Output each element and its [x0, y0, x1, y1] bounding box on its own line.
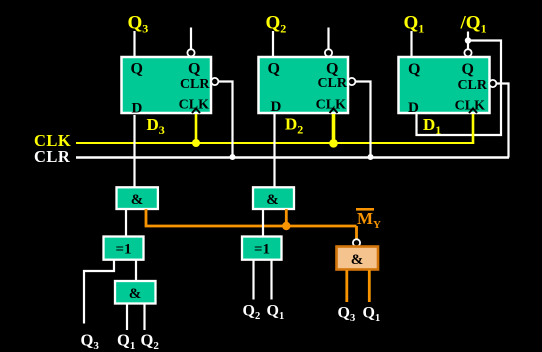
- U2 pin label CLR: [317, 76, 347, 91]
- label /Q1: [460, 13, 487, 36]
- net label CLK: [34, 131, 71, 150]
- U1 pin label CLR: [457, 78, 487, 93]
- svg-text:CLR: CLR: [34, 147, 71, 166]
- svg-text:Q: Q: [462, 61, 474, 78]
- U3 D input wire: [133, 115, 135, 187]
- label D3: [147, 115, 165, 137]
- U3 clock edge triangle: [192, 109, 200, 114]
- A1 input bubble: [353, 239, 360, 246]
- svg-text:CLR: CLR: [457, 78, 487, 93]
- U2 pin label Q (inverted output): [326, 61, 338, 78]
- X3 input wire to Q3: [84, 260, 114, 324]
- NAND gate A1 body (orange): [337, 247, 379, 270]
- svg-text:=1: =1: [115, 242, 131, 258]
- label Q2 (middle bottom): [243, 303, 261, 323]
- U2 pin label CLK: [316, 98, 346, 113]
- AND gate A3 body: [117, 187, 158, 209]
- U3 pin label CLR: [180, 77, 210, 92]
- U1 inverted output bubble: [464, 49, 471, 56]
- svg-text:Q: Q: [408, 61, 420, 78]
- AND gate A4 body: [115, 281, 156, 304]
- U2 pin label D: [271, 99, 282, 115]
- svg-text:&: &: [351, 252, 364, 268]
- U2 D input wire: [273, 114, 275, 187]
- U3 CLR wire: [218, 82, 232, 158]
- junction dot orange bus: [282, 222, 290, 230]
- X2 input wire Q1: [270, 260, 272, 300]
- A1 input wire Q1: [368, 270, 371, 302]
- label Q1 (middle bottom): [267, 303, 285, 323]
- U2 inverted output bubble: [325, 49, 332, 56]
- U2 CLK wire: [332, 114, 336, 143]
- flip-flop U3 body: [122, 57, 212, 113]
- U1 pin label Q (inverted output): [462, 61, 474, 78]
- svg-text:CLR: CLR: [317, 76, 347, 91]
- label Q3: [128, 13, 149, 36]
- junction dot U2 CLR to CLR bus: [368, 154, 374, 160]
- flip-flop U1 body: [399, 57, 490, 113]
- svg-text:CLR: CLR: [180, 77, 210, 92]
- U3 CLK wire: [195, 114, 198, 143]
- A2 output wire orange branch: [285, 209, 288, 226]
- svg-text:=1: =1: [254, 242, 270, 258]
- U3 Q output wire: [133, 31, 135, 57]
- A4 input wire Q2: [143, 304, 145, 330]
- junction dot U3 CLR to CLR bus: [230, 154, 236, 160]
- label MY (inverted): [356, 208, 381, 231]
- label Q3 (bottom left): [81, 331, 100, 352]
- U3 inverted output wire: [190, 28, 192, 50]
- U1 CLR wire: [496, 84, 508, 158]
- U1 pin label CLK: [455, 99, 485, 114]
- label Q1 (under A1): [363, 305, 381, 325]
- U3 CLR bubble: [211, 78, 218, 85]
- XNOR gate X3 body: [104, 237, 144, 260]
- label Q2: [266, 13, 287, 36]
- U3 pin label Q (inverted output): [188, 61, 200, 78]
- U2 CLR bubble: [348, 78, 355, 85]
- label Q1 (bottom): [117, 331, 135, 352]
- AND gate A2 body: [253, 187, 294, 209]
- svg-text:&: &: [129, 286, 142, 302]
- U2 clock edge triangle: [330, 109, 338, 114]
- A3 output wire to X3: [125, 209, 127, 237]
- U2 inverted output wire: [327, 28, 329, 50]
- A3 output wire orange branch: [146, 209, 357, 226]
- label Q1: [404, 13, 425, 36]
- svg-text:Q: Q: [188, 61, 200, 78]
- svg-text:&: &: [131, 192, 144, 208]
- U1 clock edge triangle: [469, 109, 477, 114]
- label Q2 (bottom): [141, 331, 160, 352]
- U3 pin label Q: [131, 61, 143, 78]
- A2 output wire to X2: [262, 209, 264, 237]
- U1 CLR bubble: [489, 80, 496, 87]
- wire CLR bus: [76, 156, 509, 159]
- svg-text:D: D: [271, 99, 282, 115]
- U3 pin label CLK: [179, 98, 209, 113]
- U1 inverted output wire: [467, 32, 469, 50]
- svg-text:D: D: [132, 101, 143, 117]
- svg-text:&: &: [266, 192, 279, 208]
- U1 Q output wire: [410, 31, 412, 57]
- U2 pin label Q: [268, 61, 280, 78]
- A4 input wire Q1: [126, 304, 128, 330]
- net label CLR: [34, 147, 71, 166]
- X3 wire to A4: [135, 260, 137, 282]
- U1 pin label Q: [408, 61, 420, 78]
- svg-text:D: D: [408, 100, 419, 116]
- U3 inverted output bubble: [187, 49, 194, 56]
- wire CLK bus: [76, 142, 474, 144]
- wire orange bus to A1 bubble: [355, 226, 358, 239]
- svg-text:Q: Q: [131, 61, 143, 78]
- junction dot /Q1 node: [465, 37, 471, 43]
- U2 CLR wire: [355, 82, 370, 158]
- junction dot U2 CLK to CLK bus: [329, 139, 338, 148]
- XNOR gate X2 body: [242, 237, 282, 260]
- U2 Q output wire: [272, 31, 274, 57]
- U1 CLK wire: [472, 114, 475, 144]
- label Q3 (under A1): [338, 305, 356, 325]
- flip-flop U2 body: [259, 57, 349, 113]
- junction dot U3 CLK to CLK bus: [192, 139, 200, 147]
- A1 input wire Q3: [345, 270, 348, 302]
- wire /Q1 feedback to D: [417, 41, 502, 136]
- label D2: [285, 115, 303, 137]
- svg-text:Q: Q: [326, 61, 338, 78]
- label D1: [423, 115, 441, 137]
- X2 input wire Q2: [252, 260, 254, 300]
- svg-text:Q: Q: [268, 61, 280, 78]
- U3 pin label D: [132, 101, 143, 117]
- U1 pin label D: [408, 100, 419, 116]
